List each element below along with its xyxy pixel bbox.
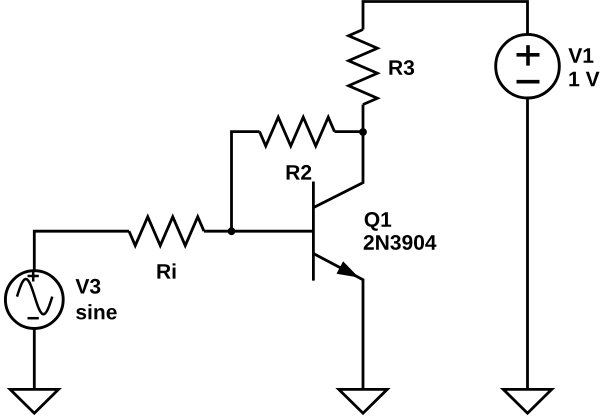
wire Ri right lead — [204, 230, 232, 233]
resistor R3 — [349, 30, 378, 105]
label V3 type sine — [76, 304, 117, 319]
wire R3 bottom to collector node — [362, 105, 365, 133]
ground under Q1 emitter — [339, 389, 387, 413]
wire base node to Q1 base — [232, 230, 314, 233]
V3 plus sign — [28, 271, 39, 282]
node collector junction dot — [359, 128, 367, 136]
wire R2 left lead down to base node — [232, 132, 260, 232]
node base junction dot — [228, 227, 236, 235]
label V3 — [76, 279, 101, 294]
ground under V1 — [503, 389, 551, 413]
source V3 circle — [5, 271, 63, 329]
wire V3 bottom to ground — [33, 329, 36, 390]
V3 minus sign — [28, 317, 39, 320]
wire V3 to Ri — [34, 231, 129, 271]
wire R2 right lead — [335, 130, 364, 133]
wire V1 bottom to ground — [526, 98, 529, 389]
label R2 — [287, 165, 312, 180]
wire top rail from R3 to V1 — [363, 2, 528, 35]
label V1 value 1 V — [569, 72, 599, 86]
transistor Q1 emitter arrow — [337, 261, 359, 277]
transistor Q1 collector lead — [313, 132, 363, 208]
V1 minus sign — [517, 80, 540, 84]
label Q1 — [365, 212, 392, 231]
voltage source V1 circle — [496, 34, 560, 98]
ground under V3 — [10, 389, 58, 413]
label Ri — [157, 263, 175, 278]
transistor Q1 base bar — [312, 182, 315, 281]
label Q1 part 2N3904 — [364, 235, 437, 250]
resistor Ri — [129, 217, 204, 246]
V3 sine wave — [17, 279, 52, 314]
transistor Q1 emitter lead — [313, 254, 363, 390]
label V1 — [568, 48, 593, 62]
V1 plus sign — [517, 45, 540, 65]
label R3 — [389, 60, 414, 75]
resistor R2 — [260, 117, 335, 146]
